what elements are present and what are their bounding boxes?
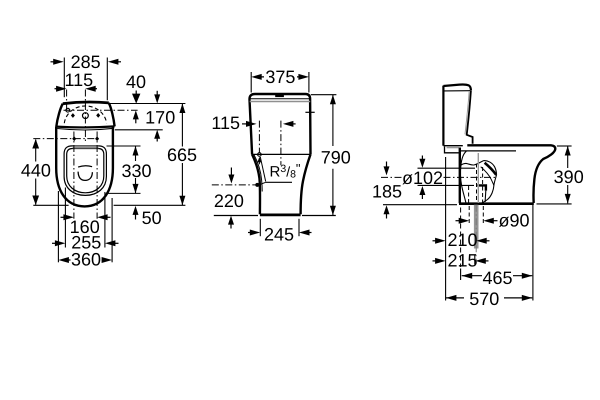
pedestal right profile — [301, 154, 311, 214]
dim 115 right arrow — [90, 88, 97, 90]
dim 440 line — [35, 140, 37, 205]
svg-text:115: 115 — [211, 113, 240, 133]
svg-text:375: 375 — [265, 67, 295, 87]
outlet pipe grey band — [474, 205, 479, 249]
floor line right — [302, 215, 336, 217]
dim 40 down arrow — [135, 91, 137, 96]
dim 390 line — [567, 146, 569, 203]
dim 570 line + arrows — [446, 297, 532, 299]
water spot top arc — [78, 166, 92, 167]
fixing centerline vertical x73.9 — [73, 132, 75, 219]
body right edge — [112, 126, 114, 168]
trap centerline dashdot left — [381, 176, 403, 178]
cistern bottom seam — [252, 153, 310, 155]
dim 465 line + arrows — [462, 275, 533, 277]
inlet centerline vertical x280.9 — [280, 121, 282, 166]
dim 115 left arrow — [55, 88, 63, 90]
dim 375 left extension — [250, 72, 252, 93]
pedestal crease line — [254, 154, 262, 191]
dim 40 up arrow — [135, 118, 137, 123]
dim 665 line — [181, 104, 183, 206]
body left edge — [55, 127, 57, 168]
dim 790 line — [332, 95, 334, 216]
cistern outline — [249, 94, 310, 154]
dim 220 up arrow — [230, 223, 232, 229]
dim o102 down arrow — [421, 156, 423, 160]
dim 245 right arrow — [304, 232, 312, 234]
tank front inner grey line — [465, 91, 469, 134]
dim 185 up arrow — [386, 212, 388, 219]
tick line top y103.5 — [109, 103, 186, 105]
svg-text:50: 50 — [142, 208, 162, 228]
trap left outline — [460, 151, 466, 203]
pedestal back edge — [459, 148, 461, 204]
hole centerline vertical x66.6 — [66, 90, 68, 111]
body diamond right — [95, 136, 99, 141]
svg-text:115: 115 — [64, 70, 93, 90]
svg-text:665: 665 — [167, 145, 197, 165]
dim 245 left arrow — [248, 232, 256, 234]
cistern diamond left — [71, 113, 75, 118]
cistern seam line 1 — [250, 98, 311, 100]
dim 245 left extension — [259, 219, 261, 236]
dim 50 up arrow — [135, 213, 137, 220]
cistern right side — [109, 103, 115, 127]
floor tick right — [537, 203, 572, 205]
base bottom — [459, 202, 534, 205]
dim 245 right extension — [298, 219, 300, 236]
trap dashed vertical 3 — [468, 186, 470, 203]
pedestal bottom — [260, 213, 301, 216]
dim 255 right extension — [104, 192, 106, 248]
trap channel inner curve — [481, 167, 494, 186]
bottom tick y205.3 right — [114, 204, 186, 206]
svg-text:440: 440 — [21, 160, 51, 180]
cistern hole circle left — [66, 108, 70, 112]
cistern top edge — [63, 102, 109, 104]
fixing centerline horizontal y138.6 — [33, 138, 100, 140]
seat opening outer — [64, 146, 106, 196]
dim 360 right extension — [111, 198, 113, 262]
dim 390 top tick — [557, 145, 572, 147]
svg-text:40: 40 — [126, 72, 146, 92]
dim 255 left arrow — [52, 242, 60, 244]
svg-text:ø90: ø90 — [498, 211, 529, 231]
inlet up arrowhead — [257, 157, 261, 163]
dim 375 right extension — [308, 72, 310, 93]
tank front edge — [467, 91, 473, 144]
svg-text:360: 360 — [71, 250, 101, 270]
dim o90 left dashed extension — [468, 206, 470, 224]
dim 360 left extension — [57, 191, 59, 262]
fixing centerline vertical x97.1 — [96, 132, 98, 219]
outlet pipe centerline grey — [475, 205, 477, 261]
pedestal left profile — [252, 154, 260, 214]
dim 360 line + arrows — [63, 259, 108, 261]
dim 160 left arrow — [61, 216, 69, 218]
tank foot outline — [445, 147, 459, 153]
dim 220 down arrow — [230, 168, 232, 175]
dim o102 up arrow — [421, 194, 423, 199]
dim o102 lower line — [418, 184, 475, 186]
side inlet dot — [255, 183, 259, 187]
dim 215 left arrow — [433, 260, 441, 262]
trap inner thick L — [477, 184, 487, 190]
dim 185 down arrow — [386, 162, 388, 170]
water spot bottom arc — [78, 172, 92, 181]
long extension line left x445.6 — [445, 157, 447, 301]
pipe centerline end bar — [474, 255, 476, 264]
R3/8 underline — [266, 181, 292, 183]
long extension line right x532.9 — [532, 203, 534, 301]
svg-text:210: 210 — [447, 230, 477, 250]
dim 790 top tick — [311, 94, 337, 96]
svg-text:ø102: ø102 — [402, 168, 443, 188]
trap dashed vertical 1 — [476, 164, 478, 204]
dim o90 right arrow — [489, 220, 498, 222]
R3/8 leader to inlet circle — [260, 157, 265, 182]
cistern diamond right — [96, 113, 100, 118]
floor tick left — [383, 204, 457, 206]
svg-text:790: 790 — [321, 148, 351, 168]
tank bottom line — [443, 145, 462, 147]
svg-text:170: 170 — [145, 108, 175, 128]
dim 285 right arrow — [114, 61, 121, 63]
dim o90 right dashed extension — [482, 206, 484, 224]
inlet centerline vertical x259.4 — [258, 121, 260, 153]
trap right outline — [482, 175, 497, 203]
svg-text:570: 570 — [469, 289, 499, 309]
trap top wavy line — [461, 161, 484, 166]
floor line left — [214, 215, 258, 217]
dim o102 upper line — [418, 167, 476, 169]
rim section thick diagonal — [485, 163, 497, 175]
dim o90 left arrow — [456, 220, 464, 222]
dim 285 right extension — [106, 58, 108, 101]
tank lid seam — [443, 90, 470, 92]
flush pipe grey line — [477, 153, 479, 203]
trap inner thin continuation — [484, 191, 487, 202]
svg-text:330: 330 — [121, 161, 151, 181]
dim 210 left arrow — [433, 240, 441, 242]
R3/8 leader to side dot — [259, 182, 266, 185]
svg-text:465: 465 — [482, 268, 512, 288]
dim 375 line + arrows — [256, 76, 305, 78]
bowl bottom U outline — [56, 168, 113, 206]
dim 285 left extension — [63, 58, 65, 98]
dim 160 right arrow — [102, 216, 111, 218]
dim 285 left arrow — [51, 61, 59, 63]
dim 170 up arrow — [156, 136, 158, 142]
dim 330 top tick — [107, 145, 141, 147]
seat top + bowl front profile — [467, 145, 555, 203]
svg-text:285: 285 — [71, 52, 101, 72]
hole centerline horizontal y110.2 — [64, 109, 138, 111]
bottom tick y205.3 left — [33, 204, 68, 206]
svg-text:245: 245 — [264, 224, 294, 244]
trap centerline dashdot right — [444, 176, 498, 178]
svg-text:220: 220 — [214, 191, 244, 211]
seat hinge grey bar — [73, 146, 99, 149]
dim 330 line — [135, 146, 137, 193]
seat lower line — [461, 150, 516, 152]
dim 255 right arrow — [111, 242, 119, 244]
body diamond left — [72, 136, 76, 141]
dim 115 left arrow — [242, 123, 249, 125]
trap dashed vertical 2 — [482, 167, 484, 203]
inlet circle — [258, 153, 262, 157]
dim 255 left extension — [64, 188, 66, 248]
dim 330 bottom tick — [107, 192, 141, 194]
svg-text:215: 215 — [447, 251, 477, 271]
cistern lid hidden dashed arc — [64, 106, 106, 123]
dim 170 down arrow — [156, 91, 158, 97]
cistern bottom edge — [56, 126, 114, 127]
cistern center circle — [83, 113, 89, 119]
flush button — [275, 95, 284, 97]
rim section outer arc — [484, 161, 497, 175]
tick line lid front y129.8 — [115, 129, 163, 131]
svg-text:390: 390 — [554, 167, 584, 187]
dim 115 right arrow — [288, 123, 296, 125]
cistern lid front thin curve — [57, 128, 113, 130]
dim 210 right arrow — [482, 240, 490, 242]
supply cross tick right — [305, 111, 314, 113]
dim 215 right arrow — [481, 260, 489, 262]
tank lid top — [443, 84, 471, 90]
cistern seam line 2 — [250, 101, 311, 103]
tank foot grey band — [447, 146, 459, 148]
dim 220 centerline dashdot — [212, 184, 256, 186]
centerline vertical x85.4 — [84, 90, 86, 142]
dim 465 left dashed extension — [460, 208, 462, 268]
cistern left side — [56, 104, 63, 127]
svg-text:185: 185 — [372, 181, 402, 201]
tank left edge — [442, 86, 444, 146]
seat opening inner — [67, 149, 104, 193]
